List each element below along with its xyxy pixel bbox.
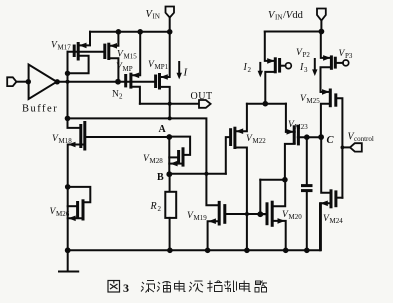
transistor VMP1	[156, 73, 168, 90]
svg-text:OUT: OUT	[191, 91, 213, 102]
port Vcontrol	[350, 143, 362, 151]
wire VP3 drain from rail	[321, 32, 332, 58]
wire VM22 gate	[226, 137, 231, 174]
node gate-wire bump on VM22 source	[245, 212, 249, 216]
wire VM23 source down	[285, 144, 295, 180]
ground rail dots	[65, 247, 71, 253]
node B dot	[166, 171, 172, 177]
node buffer output dot	[55, 79, 60, 84]
wire VIN stem	[169, 18, 171, 32]
wire bus to VM19 drain	[68, 118, 220, 205]
svg-text:IN: IN	[153, 13, 160, 21]
svg-text:2: 2	[119, 93, 123, 101]
wire vertical buffer node x67.5	[67, 52, 69, 119]
op-amp U1 Buffer	[29, 65, 57, 100]
wire VM26 drain loop	[68, 187, 91, 202]
wire node179 horizontal	[260, 179, 285, 181]
wire VM19-VM20 gate wire	[225, 213, 267, 215]
wire VM17 drain to rail	[78, 32, 90, 46]
transistor VM28	[170, 147, 183, 166]
node rail dot Vdd	[319, 29, 325, 35]
svg-text:3: 3	[304, 66, 308, 74]
port VIN	[166, 7, 175, 18]
caption CJK text 浪涌电流控制电路	[141, 281, 267, 293]
wire VM23 drain up	[285, 104, 287, 132]
wire A-B vertical	[168, 137, 170, 174]
wire C node	[298, 136, 321, 138]
wire input to buffer	[17, 81, 29, 83]
wire VM25 gate right and down	[336, 98, 343, 197]
wire VM28 source	[169, 163, 183, 165]
svg-text:M26: M26	[56, 210, 70, 218]
wire Vcontrol tap	[342, 146, 350, 148]
svg-text:2: 2	[248, 66, 252, 74]
svg-text:M20: M20	[289, 213, 303, 221]
wire OUT	[140, 103, 199, 105]
node rail dot VM15	[116, 29, 122, 35]
ground rail	[68, 203, 321, 250]
current arrow I2	[258, 63, 263, 78]
wire B to R	[169, 174, 171, 192]
node rail dot VIN	[167, 29, 173, 35]
wire VM20 drain up	[272, 180, 285, 207]
node W1 dot	[263, 101, 269, 107]
node buffer input dot	[26, 79, 31, 84]
svg-text:2: 2	[158, 205, 162, 213]
svg-text:M15: M15	[124, 53, 138, 61]
wire VMP drain to rail	[131, 32, 140, 76]
wire VM18 gate L	[68, 118, 81, 128]
svg-text:C: C	[327, 135, 335, 146]
node Vcontrol bump	[341, 146, 345, 150]
port VIN/Vdd	[317, 9, 326, 21]
svg-text:M19: M19	[194, 214, 208, 222]
svg-text:P2: P2	[303, 51, 311, 59]
wire VMP1 drain to rail	[160, 32, 170, 77]
transistor VM26	[68, 199, 83, 221]
wire VP2 source down	[265, 72, 275, 104]
transistor VM19	[208, 201, 224, 226]
svg-text:M23: M23	[295, 123, 309, 131]
node OUT junction bump	[168, 102, 172, 106]
svg-text:Buffer: Buffer	[22, 104, 58, 115]
node dot 179	[282, 177, 288, 183]
wire N2 horizontal	[57, 81, 156, 83]
node A dot	[166, 134, 172, 140]
node C-cap dot	[304, 134, 310, 140]
transistor VM25	[322, 89, 336, 108]
svg-text:R: R	[150, 201, 157, 212]
wire VM22 source down	[235, 148, 247, 251]
wire VM20 gate lead	[260, 213, 267, 215]
svg-text:P3: P3	[345, 52, 353, 60]
wire Vdd stem	[320, 21, 322, 32]
wire VMP source down	[131, 87, 140, 104]
transistor VMP	[126, 73, 140, 89]
resistor R2	[165, 192, 176, 218]
wire VM24 gate vertical from C	[321, 137, 331, 193]
svg-text:B: B	[157, 172, 164, 183]
input port	[7, 77, 16, 86]
transistor VP2	[267, 57, 291, 73]
svg-text:/Vdd: /Vdd	[283, 10, 304, 21]
svg-text:I: I	[183, 67, 189, 79]
wire down to VM20 gate	[259, 180, 261, 215]
node VM26 dot	[65, 184, 71, 190]
svg-text:M25: M25	[307, 97, 321, 105]
svg-text:M18: M18	[59, 137, 73, 145]
wire VP2 gate lead	[280, 65, 286, 67]
ground	[67, 250, 69, 271]
wire VM15 drain	[109, 32, 119, 46]
node C right dot	[318, 134, 324, 140]
wire VM24 source	[320, 203, 331, 250]
transistor VM17	[74, 42, 86, 61]
wire VM17 source loop	[68, 56, 89, 74]
node VM17 gate-source junction	[65, 71, 70, 76]
wire VM26 gate lead	[68, 205, 78, 207]
wire VM28 gate lead	[169, 156, 178, 158]
node rail dot VMP	[137, 29, 143, 35]
transistor VM24	[320, 189, 336, 208]
wire VM24 drain right lead	[336, 197, 343, 199]
node bus dot left	[65, 116, 71, 122]
wire VM28 drain loop	[169, 137, 190, 155]
capacitor C1 bottom lead	[306, 192, 308, 250]
svg-text:MP: MP	[123, 65, 133, 73]
wire VM18 source	[68, 145, 85, 251]
wire VM25 source left down to C	[321, 104, 330, 137]
wire A node from VM18 drain	[85, 136, 170, 138]
svg-text:IN: IN	[275, 14, 282, 22]
wire VM15 source to N2	[109, 58, 119, 81]
wire VM19 source	[208, 221, 220, 250]
current arrow I3	[312, 59, 317, 76]
power rail top-right	[265, 31, 322, 33]
wire gate line VM17-VM15	[68, 51, 105, 53]
node VM20 gate dot	[257, 211, 263, 217]
node bus bump VMP1	[168, 116, 172, 120]
current arrow I	[177, 62, 182, 79]
wire VMP1 source down to bus	[160, 87, 170, 119]
capacitor C1	[301, 186, 313, 191]
svg-text:A: A	[159, 124, 167, 135]
svg-text:N: N	[112, 90, 119, 100]
svg-text:M24: M24	[330, 217, 344, 225]
wire VM20 source down	[272, 221, 286, 250]
svg-text:M17: M17	[58, 44, 72, 52]
transistor VP3	[323, 55, 349, 70]
svg-text:MP1: MP1	[155, 63, 169, 71]
svg-text:3: 3	[123, 281, 129, 295]
port OUT	[199, 100, 211, 108]
wire R to ground rail	[169, 218, 171, 250]
power rail top-left VIN	[90, 31, 170, 33]
wire VM26 source	[68, 217, 83, 219]
node N2 dot	[115, 79, 121, 85]
wire VP2 drain from rail	[265, 32, 276, 61]
wire B horizontal	[169, 173, 226, 175]
transistor VM15	[105, 43, 117, 60]
transistor VM22	[231, 127, 244, 149]
svg-text:M28: M28	[150, 157, 164, 165]
capacitor C1 top lead	[306, 137, 308, 184]
transistor VM23	[287, 125, 299, 146]
svg-text:M22: M22	[253, 137, 267, 145]
wire VM22 drain	[235, 104, 247, 132]
wire VM25 drain	[321, 91, 331, 93]
caption 图 3	[108, 281, 120, 293]
node B-wire bump	[204, 172, 208, 176]
wire VP3 source down	[321, 67, 332, 92]
wire VP3 gate lead	[335, 62, 343, 64]
svg-text:control: control	[354, 135, 374, 143]
transistor VM20	[267, 201, 285, 227]
wire W1 top-right horizontal	[247, 103, 286, 105]
transistor VM18	[68, 121, 85, 151]
